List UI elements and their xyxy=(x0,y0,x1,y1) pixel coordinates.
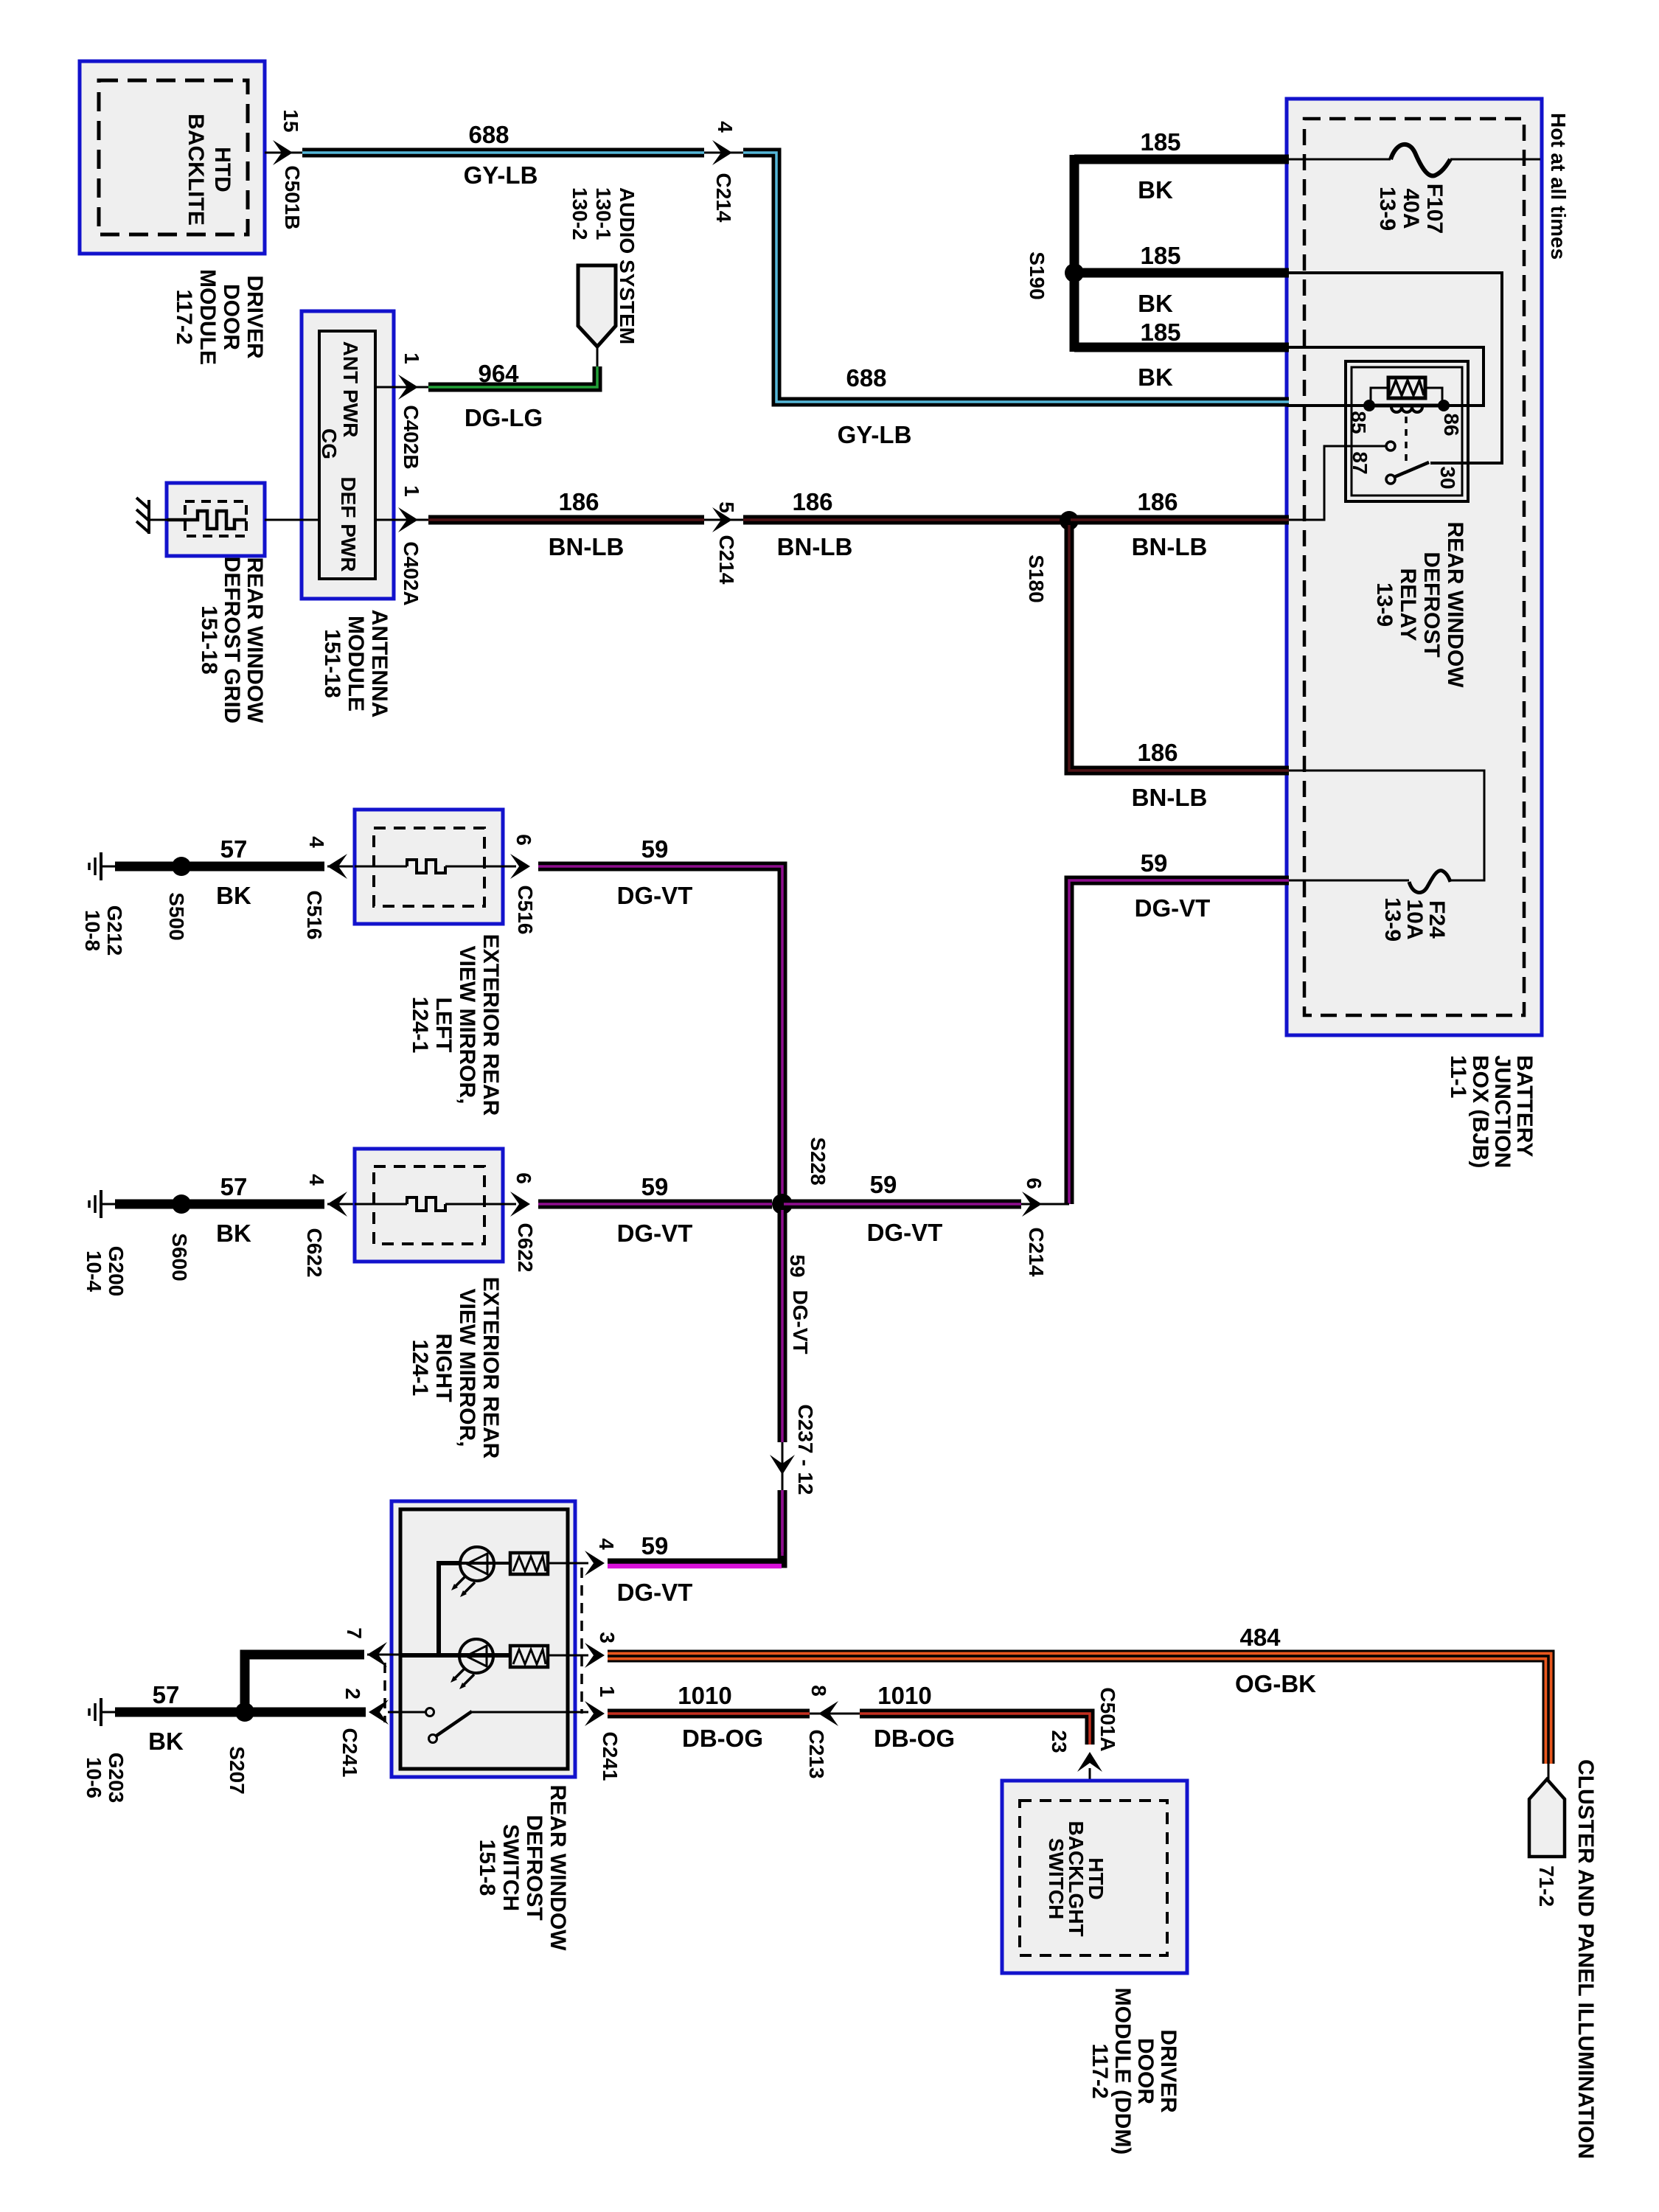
svg-text:4: 4 xyxy=(714,121,737,133)
LED indicator 2 xyxy=(459,1639,493,1673)
wire 57 BK to S207 xyxy=(115,1708,366,1717)
svg-text:6: 6 xyxy=(1023,1178,1046,1189)
ground G212 10-8 xyxy=(100,852,102,880)
svg-text:23: 23 xyxy=(1048,1730,1071,1753)
svg-text:4: 4 xyxy=(305,1174,328,1186)
driver door module (DDM) box xyxy=(1002,1781,1187,1973)
connector C516 pin 6 arrow xyxy=(510,854,530,879)
svg-text:186: 186 xyxy=(1137,488,1178,515)
wire 59 DG-VT to defrost switch pin 4 xyxy=(608,1552,782,1563)
wire 688 GY-LB from HTD BACKLITE xyxy=(265,152,302,154)
svg-text:186: 186 xyxy=(792,488,832,515)
antenna module box xyxy=(302,311,394,599)
svg-text:BN-LB: BN-LB xyxy=(1132,784,1208,811)
svg-text:DG-VT: DG-VT xyxy=(617,1220,693,1247)
wire 57 BK right mirror xyxy=(115,1200,324,1209)
mirror defrost element xyxy=(355,866,407,868)
pin 15 connector C501B arrow xyxy=(273,140,293,165)
svg-text:13-9: 13-9 xyxy=(1375,187,1399,231)
svg-text:C402B: C402B xyxy=(400,405,422,469)
svg-text:C237 - 12: C237 - 12 xyxy=(794,1405,817,1495)
svg-text:BK: BK xyxy=(1138,364,1173,391)
svg-text:ANTENNA: ANTENNA xyxy=(367,610,392,718)
svg-text:8: 8 xyxy=(807,1685,830,1697)
wire 185 BK middle xyxy=(1074,268,1289,278)
svg-text:BATTERY: BATTERY xyxy=(1512,1055,1537,1157)
svg-text:186: 186 xyxy=(1137,739,1178,766)
ground G200 10-4 xyxy=(100,1190,102,1218)
wire 59 DG-VT S228 to C214 xyxy=(784,1200,1021,1209)
fuse F107 40A internal line xyxy=(1287,159,1391,161)
svg-text:124-1: 124-1 xyxy=(408,1340,432,1397)
svg-text:C241: C241 xyxy=(338,1728,361,1778)
svg-text:30: 30 xyxy=(1436,466,1459,489)
ground G203 10-6 xyxy=(100,1698,102,1726)
connector C214 pin 6 xyxy=(1021,1203,1069,1206)
svg-text:DG-LG: DG-LG xyxy=(465,404,543,431)
svg-text:C241: C241 xyxy=(599,1732,622,1781)
in-line connector C237-12 xyxy=(782,1442,784,1490)
svg-text:15: 15 xyxy=(279,109,302,132)
pin 1 connector C402A arrow xyxy=(398,507,418,532)
svg-text:57: 57 xyxy=(220,1173,248,1200)
svg-text:VIEW MIRROR,: VIEW MIRROR, xyxy=(455,946,479,1105)
svg-text:151-18: 151-18 xyxy=(197,605,221,674)
connector C622 pin 4 arrow xyxy=(327,1192,347,1217)
BJB internal line: 186 lower to fuse F24 xyxy=(1287,771,1484,880)
svg-text:REAR WINDOW: REAR WINDOW xyxy=(1443,522,1467,689)
wire 185 BK bottom xyxy=(1074,343,1289,352)
svg-text:117-2: 117-2 xyxy=(172,289,196,344)
svg-text:C214: C214 xyxy=(1025,1228,1048,1277)
wire 688 GY-LB to BJB xyxy=(743,153,1289,402)
splice S228 xyxy=(772,1194,793,1214)
svg-text:185: 185 xyxy=(1140,319,1180,346)
svg-text:DOOR: DOOR xyxy=(1133,2038,1158,2104)
svg-text:C214: C214 xyxy=(712,173,735,223)
svg-text:DB-OG: DB-OG xyxy=(874,1725,955,1752)
splice S207 xyxy=(235,1703,254,1722)
svg-text:6: 6 xyxy=(512,834,535,846)
svg-text:DG-VT: DG-VT xyxy=(867,1219,943,1246)
internal wiring xyxy=(439,1563,460,1655)
wire S190 bus vertical xyxy=(1070,155,1079,352)
splice S190 xyxy=(1065,263,1084,282)
wire 186 BN-LB segment 1 xyxy=(428,515,704,525)
splice S180 xyxy=(1060,511,1079,530)
svg-text:185: 185 xyxy=(1140,242,1180,269)
svg-text:C622: C622 xyxy=(514,1223,537,1273)
svg-text:DG-VT: DG-VT xyxy=(1135,894,1211,922)
svg-text:DRIVER: DRIVER xyxy=(1156,2029,1180,2113)
wire 186 BN-LB segment 2 xyxy=(743,515,1068,525)
svg-text:11-1: 11-1 xyxy=(1446,1055,1470,1098)
connector C622 pin 6 arrow xyxy=(510,1192,530,1217)
svg-text:124-1: 124-1 xyxy=(408,997,432,1054)
wire 484 OG-BK to cluster illumination xyxy=(608,1656,1548,1764)
coil scallops xyxy=(1391,407,1422,412)
svg-text:SWITCH: SWITCH xyxy=(1045,1838,1068,1919)
connector C501A pin 23 xyxy=(1077,1752,1102,1772)
fuse F107 symbol xyxy=(1391,145,1450,176)
svg-text:LEFT: LEFT xyxy=(431,998,456,1053)
wire 1010 DB-OG segment 2 xyxy=(860,1714,1090,1745)
svg-text:DEFROST: DEFROST xyxy=(1419,552,1444,657)
svg-text:G212: G212 xyxy=(103,905,126,956)
switch pin 2 xyxy=(369,1700,389,1725)
svg-text:F107: F107 xyxy=(1422,184,1447,234)
svg-text:87: 87 xyxy=(1349,451,1371,474)
svg-text:59: 59 xyxy=(641,835,669,863)
svg-text:4: 4 xyxy=(305,836,328,848)
svg-text:C501A: C501A xyxy=(1096,1687,1119,1751)
svg-text:59: 59 xyxy=(641,1532,669,1559)
svg-text:71-2: 71-2 xyxy=(1535,1865,1558,1907)
BJB internal line: 186 to relay pin 87 xyxy=(1287,446,1385,520)
resistor 2 xyxy=(510,1646,548,1667)
connector C213 pin 8 xyxy=(818,1701,838,1726)
wire 57 BK left mirror xyxy=(115,862,324,872)
svg-text:BK: BK xyxy=(148,1728,184,1755)
svg-text:Hot at all times: Hot at all times xyxy=(1547,113,1570,260)
exterior rear view mirror right box xyxy=(355,1149,503,1262)
svg-text:OG-BK: OG-BK xyxy=(1235,1670,1316,1697)
svg-text:DG-VT: DG-VT xyxy=(617,1579,693,1606)
relay switch arm xyxy=(1386,475,1395,484)
svg-text:1010: 1010 xyxy=(877,1682,931,1709)
svg-text:3: 3 xyxy=(596,1632,619,1644)
fuse F24 symbol xyxy=(1409,871,1450,893)
svg-text:DG-VT: DG-VT xyxy=(789,1290,812,1354)
svg-text:DEFROST: DEFROST xyxy=(522,1815,546,1920)
svg-text:S180: S180 xyxy=(1025,554,1048,602)
LED indicator 1 xyxy=(460,1547,494,1581)
svg-text:BN-LB: BN-LB xyxy=(549,533,625,560)
audio system off-page connector xyxy=(578,265,616,347)
svg-text:688: 688 xyxy=(846,364,886,392)
thin line grid to antenna module xyxy=(265,519,319,521)
svg-text:85: 85 xyxy=(1347,411,1370,434)
svg-text:C516: C516 xyxy=(514,886,537,935)
svg-text:REAR WINDOW: REAR WINDOW xyxy=(546,1785,570,1952)
svg-text:10A: 10A xyxy=(1402,899,1427,939)
svg-text:DRIVER: DRIVER xyxy=(243,275,267,359)
rear window defrost relay box xyxy=(1346,361,1468,501)
svg-text:GY-LB: GY-LB xyxy=(464,161,538,189)
HTD BACKLITE / driver door module box xyxy=(80,61,265,254)
svg-text:BN-LB: BN-LB xyxy=(1132,533,1208,560)
svg-text:10-6: 10-6 xyxy=(83,1757,105,1798)
battery junction box (BJB) xyxy=(1287,99,1542,1035)
svg-text:HTD: HTD xyxy=(210,147,234,192)
svg-text:C213: C213 xyxy=(805,1730,828,1779)
svg-text:G203: G203 xyxy=(105,1753,128,1804)
svg-text:151-18: 151-18 xyxy=(320,629,344,698)
svg-text:S228: S228 xyxy=(807,1137,829,1185)
svg-text:59: 59 xyxy=(786,1254,809,1277)
wire 59 DG-VT bus down xyxy=(778,1210,787,1442)
svg-text:EXTERIOR REAR: EXTERIOR REAR xyxy=(479,1277,503,1459)
svg-text:G200: G200 xyxy=(105,1246,128,1297)
svg-text:86: 86 xyxy=(1440,413,1463,436)
rear window defrost switch box xyxy=(392,1501,575,1777)
svg-text:BK: BK xyxy=(1138,176,1173,204)
relay pin 86 node xyxy=(1438,400,1450,411)
svg-text:JUNCTION: JUNCTION xyxy=(1490,1055,1514,1168)
svg-text:MODULE: MODULE xyxy=(195,269,220,365)
svg-text:C622: C622 xyxy=(303,1228,326,1278)
svg-text:59: 59 xyxy=(641,1173,669,1200)
connector C214 pin 5 xyxy=(704,519,743,521)
svg-text:BN-LB: BN-LB xyxy=(777,533,853,560)
svg-text:688: 688 xyxy=(468,121,509,148)
svg-text:130-1: 130-1 xyxy=(592,187,615,240)
svg-text:CG: CG xyxy=(318,428,341,459)
chassis ground (grid) xyxy=(147,500,150,534)
BJB internal line: 688 to relay pin 85 xyxy=(1287,404,1369,407)
svg-text:185: 185 xyxy=(1140,128,1180,156)
BJB internal line: bottom 185 to relay pin 86 xyxy=(1287,347,1484,406)
wire 59 DG-VT from fuse F24 xyxy=(1069,880,1289,1204)
svg-text:AUDIO SYSTEM: AUDIO SYSTEM xyxy=(616,187,639,344)
switch pin 7 xyxy=(367,1642,387,1667)
svg-text:964: 964 xyxy=(478,360,519,387)
BJB internal line: mid 185 to relay pin 30 xyxy=(1287,273,1502,463)
svg-text:BK: BK xyxy=(1138,290,1173,317)
svg-text:13-9: 13-9 xyxy=(1372,582,1397,627)
rear window defrost grid box xyxy=(167,483,265,556)
svg-text:1010: 1010 xyxy=(678,1682,731,1709)
wire 185 BK top xyxy=(1074,155,1289,164)
wire 59 DG-VT right mirror xyxy=(538,1200,772,1209)
svg-text:1: 1 xyxy=(596,1686,619,1697)
splice S600 xyxy=(172,1194,191,1214)
switch pin 1 xyxy=(585,1701,605,1726)
exterior rear view mirror left box xyxy=(355,810,503,924)
svg-text:REAR WINDOW: REAR WINDOW xyxy=(243,557,267,724)
svg-text:C501B: C501B xyxy=(281,165,304,229)
svg-text:S207: S207 xyxy=(226,1746,248,1794)
mirror defrost element xyxy=(355,1203,407,1206)
svg-text:MODULE (DDM): MODULE (DDM) xyxy=(1110,1988,1135,2155)
relay actuator dashed xyxy=(1405,417,1408,461)
svg-text:C516: C516 xyxy=(303,891,326,940)
svg-text:RELAY: RELAY xyxy=(1396,568,1420,641)
svg-text:117-2: 117-2 xyxy=(1088,2043,1112,2098)
svg-text:40A: 40A xyxy=(1399,188,1423,229)
svg-text:DB-OG: DB-OG xyxy=(682,1725,763,1752)
svg-text:DG-VT: DG-VT xyxy=(617,882,693,909)
svg-text:EXTERIOR REAR: EXTERIOR REAR xyxy=(479,934,503,1116)
svg-text:5: 5 xyxy=(715,501,738,513)
svg-text:F24: F24 xyxy=(1425,900,1449,939)
svg-text:13-9: 13-9 xyxy=(1380,897,1405,942)
connector C214 pin 4 xyxy=(704,152,743,154)
relay pin 85 node xyxy=(1363,400,1375,411)
connector C516 pin 4 arrow xyxy=(327,854,347,879)
svg-text:C214: C214 xyxy=(715,535,738,585)
svg-text:4: 4 xyxy=(595,1538,618,1550)
svg-text:CLUSTER AND PANEL ILLUMINATION: CLUSTER AND PANEL ILLUMINATION xyxy=(1573,1759,1598,2159)
svg-text:186: 186 xyxy=(558,488,599,515)
svg-text:MODULE: MODULE xyxy=(344,616,368,712)
wire 186 BN-LB segment 3 to relay xyxy=(1071,515,1289,525)
svg-text:SWITCH: SWITCH xyxy=(498,1824,523,1911)
svg-text:10-8: 10-8 xyxy=(81,910,104,951)
switch pin 4 xyxy=(548,1562,588,1565)
svg-text:59: 59 xyxy=(870,1171,897,1198)
svg-text:BK: BK xyxy=(216,882,251,909)
svg-text:10-4: 10-4 xyxy=(83,1251,105,1292)
svg-text:GY-LB: GY-LB xyxy=(838,421,912,448)
switch pin 3 xyxy=(548,1655,588,1657)
svg-text:VIEW MIRROR,: VIEW MIRROR, xyxy=(455,1289,479,1447)
splice S500 xyxy=(172,857,191,876)
wire S207 to pin 7 xyxy=(245,1655,364,1708)
svg-text:1: 1 xyxy=(400,352,423,364)
svg-text:57: 57 xyxy=(153,1681,180,1708)
svg-text:RIGHT: RIGHT xyxy=(431,1333,456,1402)
wire 1010 DB-OG segment 1 xyxy=(608,1709,810,1719)
svg-text:57: 57 xyxy=(220,835,248,863)
grid resistive element xyxy=(167,511,246,529)
relay pin 87 contact xyxy=(1386,442,1395,451)
svg-text:7: 7 xyxy=(343,1627,366,1639)
svg-text:151-8: 151-8 xyxy=(475,1840,499,1896)
wire 186 BN-LB branch to F24 xyxy=(1069,525,1289,771)
svg-text:1: 1 xyxy=(400,485,423,497)
svg-text:S190: S190 xyxy=(1026,251,1048,299)
svg-text:DEF PWR: DEF PWR xyxy=(337,476,360,571)
relay coil xyxy=(1388,378,1425,398)
svg-text:S500: S500 xyxy=(165,892,188,940)
wire 964 DG-LG antenna to audio xyxy=(375,386,428,389)
wire 59 DG-VT left mirror xyxy=(538,866,782,1198)
svg-text:BK: BK xyxy=(216,1220,251,1247)
svg-text:2: 2 xyxy=(341,1688,364,1700)
svg-text:BOX (BJB): BOX (BJB) xyxy=(1468,1055,1492,1168)
svg-text:DEFROST GRID: DEFROST GRID xyxy=(220,557,244,724)
svg-text:ANT PWR: ANT PWR xyxy=(339,341,362,438)
pin 1 connector C402B arrow xyxy=(398,375,418,400)
cluster and panel illumination connector xyxy=(1548,1764,1550,1780)
svg-text:484: 484 xyxy=(1239,1624,1281,1651)
connector dashed edges xyxy=(580,1568,583,1714)
svg-text:BACKLITE: BACKLITE xyxy=(184,114,208,226)
svg-text:S600: S600 xyxy=(168,1233,191,1281)
defrost switch contacts xyxy=(388,1711,425,1714)
resistor 1 xyxy=(510,1553,548,1574)
svg-text:59: 59 xyxy=(1141,849,1168,877)
svg-text:DOOR: DOOR xyxy=(219,284,243,350)
svg-text:130-2: 130-2 xyxy=(568,187,591,240)
svg-text:6: 6 xyxy=(512,1172,535,1184)
svg-text:C402A: C402A xyxy=(400,541,422,605)
